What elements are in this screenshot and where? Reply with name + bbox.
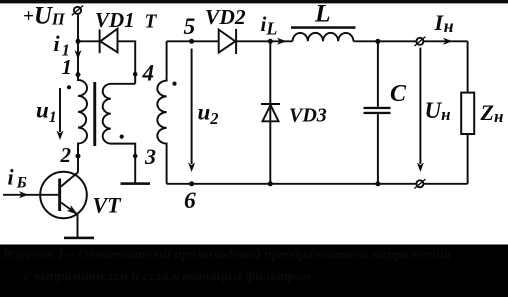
node 6 dot	[189, 181, 194, 186]
top rail secondary to VD2	[167, 40, 219, 42]
bottom rail	[167, 183, 468, 185]
top rail VD2 to L	[236, 40, 293, 42]
wire to VD1	[78, 40, 100, 42]
terminal +Un circle	[72, 6, 83, 16]
svg-text:VD2: VD2	[205, 5, 246, 29]
svg-text:Uн: Uн	[425, 98, 451, 124]
transformer demagnetizing winding 4-3	[103, 84, 135, 183]
wire node2 to transistor collector	[77, 156, 79, 172]
wire supply vertical from terminal to node 1	[77, 14, 79, 81]
capacitor C	[364, 41, 391, 184]
wire Zn bottom to rail	[467, 134, 469, 184]
top rail terminal to corner	[423, 40, 467, 42]
svg-text:3: 3	[144, 144, 156, 169]
node 1 dot	[76, 72, 81, 77]
svg-text:C: C	[390, 81, 407, 107]
svg-text:с выпрямителем и сглаживающим: с выпрямителем и сглаживающим фильтром	[24, 269, 311, 284]
node dot C bottom	[375, 181, 380, 186]
svg-text:Рисунок 1 – Однотактный прямох: Рисунок 1 – Однотактный прямоходовой пре…	[3, 248, 451, 263]
base current arrow iB	[19, 191, 29, 198]
current arrow iL	[277, 38, 287, 45]
node dot VD3 bottom	[268, 181, 273, 186]
diode VD2	[219, 29, 236, 54]
output terminal top circle	[414, 37, 425, 46]
top rail C to output terminal	[378, 40, 417, 42]
svg-text:VD3: VD3	[289, 105, 327, 127]
transformer core bar	[93, 82, 96, 146]
demag polarity dot	[120, 135, 124, 139]
svg-text:VD1: VD1	[95, 8, 135, 32]
diode VD3	[261, 41, 280, 184]
ground at emitter	[64, 237, 94, 240]
svg-text:Zн: Zн	[480, 100, 504, 126]
svg-text:VT: VT	[93, 193, 123, 218]
svg-text:6: 6	[184, 188, 196, 214]
emitter wire	[77, 215, 79, 238]
voltage arrow u1	[57, 88, 64, 140]
wire corner down to Zn	[467, 41, 469, 92]
current arrow i1	[75, 50, 82, 60]
base wire	[3, 194, 58, 196]
svg-text:iL: iL	[261, 12, 278, 39]
node dot C top	[375, 39, 380, 44]
node 4 dot	[133, 72, 138, 77]
inductor L	[291, 26, 356, 41]
secondary winding 5-6	[157, 41, 166, 184]
load Zn rectangle	[461, 93, 474, 134]
caption band	[0, 245, 508, 297]
svg-text:u1: u1	[36, 98, 57, 127]
top scan border line	[0, 0, 508, 3]
svg-text:5: 5	[184, 14, 196, 40]
secondary polarity dot	[172, 82, 176, 86]
svg-text:1: 1	[62, 55, 73, 79]
svg-text:u2: u2	[198, 100, 219, 129]
svg-text:iБ: iБ	[8, 165, 27, 192]
node 3 dot	[133, 154, 138, 159]
ground at node 3	[121, 182, 151, 185]
voltage arrow Un	[417, 48, 424, 173]
svg-text:4: 4	[142, 60, 155, 85]
svg-text:L: L	[314, 0, 331, 28]
wire VD1 anode to node 4	[118, 41, 136, 84]
node 2 dot	[76, 154, 81, 159]
node junction dot at top of supply	[76, 39, 81, 44]
diode VD1	[100, 29, 118, 54]
current arrow In	[443, 38, 453, 45]
output terminal bottom circle	[414, 179, 425, 188]
transformer primary winding 1-2	[78, 75, 87, 156]
svg-text:Iн: Iн	[434, 10, 454, 36]
svg-text:T: T	[145, 12, 158, 33]
svg-text:2: 2	[60, 143, 72, 167]
transistor VT	[40, 172, 87, 219]
node dot VD3 top	[268, 39, 273, 44]
voltage arrow u2	[188, 49, 195, 173]
node 5 dot	[189, 39, 194, 44]
svg-text:+UП: +UП	[23, 3, 66, 30]
primary polarity dot	[67, 85, 71, 89]
top rail L to C node	[353, 40, 378, 42]
